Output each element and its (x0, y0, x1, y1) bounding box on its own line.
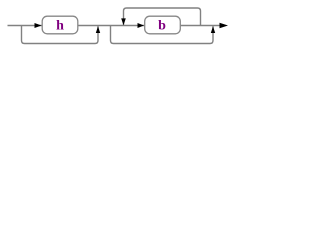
box b (145, 16, 181, 34)
arrowhead up, end of h bypass (96, 26, 100, 33)
box h (42, 16, 78, 34)
arrowhead down, loop return (121, 18, 126, 25)
wire repeat loop over b (124, 8, 201, 26)
arrowhead into h (35, 23, 42, 28)
arrowhead final output (220, 23, 229, 29)
wire bypass around b loop (skip path) (111, 26, 214, 44)
arrowhead into b (138, 23, 145, 28)
wire bypass around h (skip path) (22, 26, 99, 44)
svg-text:b: b (158, 19, 166, 34)
svg-text:h: h (56, 19, 64, 34)
main wire (8, 25, 221, 27)
arrowhead up, end of b bypass (211, 26, 215, 33)
